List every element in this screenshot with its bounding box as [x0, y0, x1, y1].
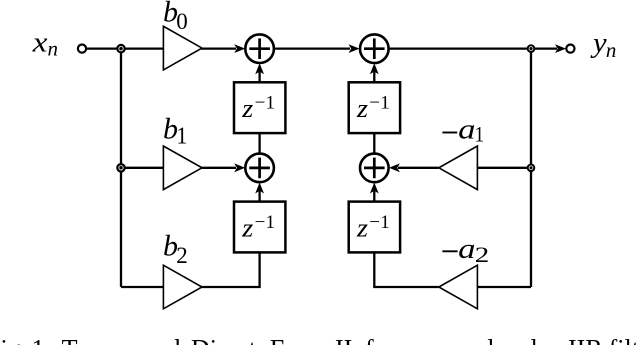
- delay box Z2b: [349, 202, 400, 253]
- node y_n label: [590, 27, 617, 62]
- amplifier -a1 triangle (pointing left): [439, 146, 478, 190]
- svg-text:−1: −1: [255, 93, 275, 114]
- svg-text:II: II: [335, 334, 352, 345]
- adder A3: [245, 154, 274, 183]
- delay box Z1b: [234, 202, 285, 253]
- svg-text:y: y: [590, 27, 607, 59]
- svg-text:n: n: [606, 38, 617, 62]
- svg-text:for: for: [365, 334, 396, 345]
- svg-text:2: 2: [475, 242, 490, 267]
- svg-text:0: 0: [176, 9, 188, 34]
- wire junction4 to -a1 base: [477, 167, 531, 169]
- svg-text:Direct: Direct: [191, 334, 257, 345]
- svg-text:filter: filter: [609, 334, 640, 345]
- svg-text:1: 1: [176, 124, 187, 150]
- output terminal circle: [566, 45, 574, 53]
- svg-text:−1: −1: [255, 212, 275, 233]
- svg-text:2: 2: [176, 243, 188, 268]
- wire delay Z2a to adder A2 with up arrow: [370, 63, 379, 82]
- svg-text:1.: 1.: [32, 334, 52, 345]
- wire left vertical bus: [120, 49, 122, 287]
- node x_n label: [31, 27, 58, 61]
- svg-text:−1: −1: [369, 93, 389, 114]
- svg-text:Fig.: Fig.: [0, 334, 27, 345]
- wire b0 to adder A1 with arrow: [201, 44, 245, 53]
- svg-text:1: 1: [475, 122, 485, 147]
- wire delay Z1b to adder A3 with up arrow: [255, 183, 264, 202]
- svg-text:Transposed: Transposed: [62, 334, 181, 345]
- label b2: [163, 230, 188, 268]
- delay box Z2a: [349, 82, 400, 133]
- junction node J2: [117, 164, 124, 171]
- input terminal circle: [78, 45, 86, 53]
- wire b1 to adder A3 with arrow: [201, 163, 245, 172]
- wire -a2 apex to corner up to delay Z2b: [374, 252, 438, 287]
- wire corner to b2: [121, 286, 163, 288]
- wire delay Z2b to adder A4 with up arrow: [370, 183, 379, 202]
- svg-text:−1: −1: [369, 212, 389, 233]
- wire b2 to corner up to delay box Z1b: [201, 252, 260, 287]
- svg-text:Form: Form: [270, 334, 326, 345]
- wire junction2 to b1: [121, 167, 163, 169]
- svg-text:z: z: [356, 94, 368, 123]
- wire junction to output terminal with arrow: [531, 44, 566, 53]
- svg-text:z: z: [241, 94, 253, 123]
- svg-text:n: n: [48, 37, 59, 61]
- adder A1: [245, 34, 274, 63]
- wire -a1 apex to adder A4 with left arrow: [389, 163, 439, 172]
- svg-text:x: x: [31, 27, 47, 59]
- delay box Z1a: [234, 82, 285, 133]
- amplifier -a2 triangle (pointing left): [439, 265, 478, 309]
- amplifier b2 triangle: [163, 265, 202, 309]
- svg-text:a: a: [458, 114, 475, 146]
- wire right corner to -a2 base: [477, 286, 531, 288]
- wire adder A2 to output junction: [389, 47, 531, 49]
- label b1: [163, 113, 187, 150]
- amplifier b0 triangle: [163, 26, 202, 70]
- svg-text:z: z: [356, 213, 368, 242]
- figure caption (clipped at bottom edge): [0, 334, 640, 345]
- adder A2: [360, 34, 389, 63]
- wire right vertical bus: [530, 49, 532, 287]
- wire adder A3 to delay Z1a: [258, 133, 260, 153]
- junction node J3 (output tap): [528, 45, 535, 52]
- wire adder A1 to adder A2 with arrow: [274, 44, 359, 53]
- svg-text:a: a: [458, 233, 475, 265]
- label -a2: [442, 233, 489, 267]
- label b0: [163, 0, 188, 34]
- svg-text:second-order: second-order: [422, 334, 558, 345]
- junction node J4: [528, 165, 535, 172]
- wire adder A4 to delay Z2a: [373, 133, 375, 153]
- adder A4: [360, 154, 389, 183]
- amplifier b1 triangle: [163, 146, 202, 190]
- wire delay Z1a to adder A1 with up arrow: [255, 63, 264, 82]
- label -a1: [442, 114, 484, 147]
- svg-text:z: z: [241, 213, 253, 242]
- wire input to b0: [87, 47, 163, 49]
- svg-text:a: a: [405, 334, 417, 345]
- svg-text:IIR: IIR: [568, 334, 603, 345]
- junction node J1 (input tap): [117, 45, 124, 52]
